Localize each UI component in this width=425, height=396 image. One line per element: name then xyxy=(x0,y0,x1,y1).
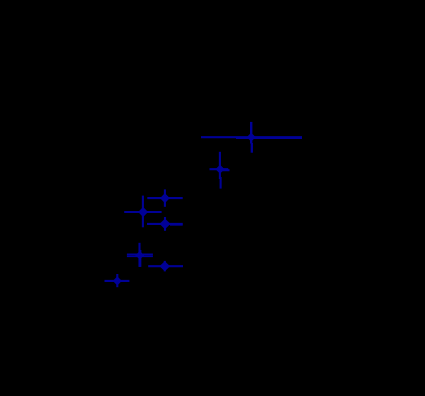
P2 yerr bar upper xyxy=(219,152,221,179)
P5 xerr bar lower overlap xyxy=(170,224,183,226)
P2 yerr bar lower xyxy=(220,177,222,189)
P2 xerr bar lower overlap xyxy=(221,169,230,171)
P3 yerr bar xyxy=(164,189,166,206)
P6 yerr bar second xyxy=(139,250,141,267)
marker P2 diamond xyxy=(216,166,223,173)
marker P6 diamond xyxy=(136,252,143,259)
P1 xerr bar xyxy=(201,136,302,138)
P2 xerr bar xyxy=(210,168,229,170)
marker P3 diamond xyxy=(161,194,169,202)
P4 yerr bar xyxy=(142,196,144,228)
P6 xerr bar xyxy=(127,253,153,255)
P4 xerr bar xyxy=(124,211,161,213)
marker P4 diamond xyxy=(139,208,147,216)
P5 yerr bar xyxy=(164,217,166,231)
P6 yerr bar xyxy=(138,243,140,267)
P1 yerr bar upper xyxy=(250,122,252,144)
marker P1 diamond xyxy=(248,134,255,141)
P1 yerr bar lower xyxy=(251,143,253,153)
P5 xerr bar xyxy=(147,223,183,225)
P7 yerr bar xyxy=(164,261,166,272)
marker P7 diamond xyxy=(160,262,169,270)
P3 xerr bar xyxy=(147,197,182,199)
P6 xerr bar second xyxy=(127,255,153,257)
P1 xerr bar lower overlap xyxy=(236,137,302,139)
marker P8 diamond xyxy=(114,277,121,284)
P8 xerr bar xyxy=(105,280,130,282)
marker P5 diamond xyxy=(160,220,169,229)
P8 yerr bar xyxy=(116,274,118,287)
P7 xerr bar xyxy=(148,265,183,267)
